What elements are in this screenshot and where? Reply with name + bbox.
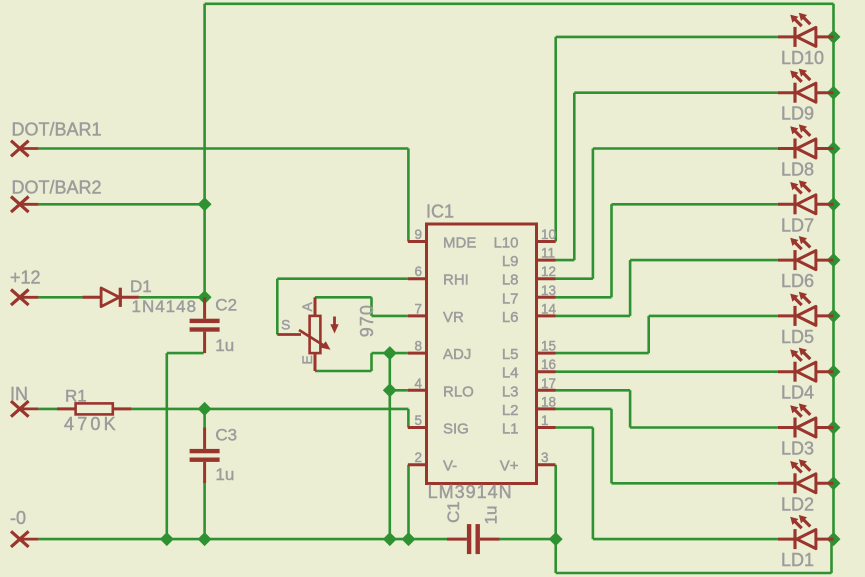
svg-text:V+: V+ xyxy=(500,458,519,475)
svg-text:IN: IN xyxy=(10,384,28,404)
svg-text:LD8: LD8 xyxy=(781,160,814,180)
svg-text:LD9: LD9 xyxy=(781,104,814,124)
svg-text:7: 7 xyxy=(414,301,422,316)
svg-text:LD2: LD2 xyxy=(781,494,814,514)
svg-text:15: 15 xyxy=(541,339,556,354)
svg-text:V-: V- xyxy=(443,458,457,475)
svg-text:C1: C1 xyxy=(444,501,463,523)
svg-text:L5: L5 xyxy=(502,346,519,363)
svg-text:LD3: LD3 xyxy=(781,439,814,459)
svg-text:L2: L2 xyxy=(502,402,519,419)
svg-text:S: S xyxy=(281,317,290,333)
svg-text:L8: L8 xyxy=(502,272,519,289)
svg-text:17: 17 xyxy=(541,376,556,391)
svg-text:D1: D1 xyxy=(130,277,152,296)
svg-text:LD6: LD6 xyxy=(781,271,814,291)
svg-text:6: 6 xyxy=(414,264,422,279)
svg-text:L10: L10 xyxy=(493,235,518,252)
svg-text:1N4148: 1N4148 xyxy=(132,297,198,316)
svg-text:SIG: SIG xyxy=(443,421,469,438)
svg-text:VR: VR xyxy=(443,309,464,326)
svg-text:L6: L6 xyxy=(502,309,519,326)
svg-text:RLO: RLO xyxy=(443,383,474,400)
svg-text:IC1: IC1 xyxy=(426,202,454,222)
svg-text:16: 16 xyxy=(541,357,556,372)
svg-text:DOT/BAR1: DOT/BAR1 xyxy=(12,120,102,140)
svg-text:14: 14 xyxy=(541,301,557,316)
svg-text:R1: R1 xyxy=(65,386,87,405)
svg-text:RHI: RHI xyxy=(443,272,469,289)
svg-text:11: 11 xyxy=(541,246,555,261)
svg-text:12: 12 xyxy=(541,264,556,279)
svg-text:10: 10 xyxy=(541,227,556,242)
svg-text:E: E xyxy=(299,355,315,364)
svg-text:1u: 1u xyxy=(215,465,234,484)
svg-text:1: 1 xyxy=(541,413,549,428)
svg-text:4: 4 xyxy=(414,376,422,391)
svg-text:LD7: LD7 xyxy=(781,215,814,235)
svg-text:-0: -0 xyxy=(10,508,26,528)
svg-text:970: 970 xyxy=(357,304,377,337)
svg-text:LD10: LD10 xyxy=(781,48,824,68)
svg-text:L1: L1 xyxy=(502,421,519,438)
svg-text:L3: L3 xyxy=(502,383,519,400)
svg-text:LD4: LD4 xyxy=(781,383,814,403)
svg-text:8: 8 xyxy=(414,339,422,354)
svg-text:5: 5 xyxy=(414,413,422,428)
svg-text:2: 2 xyxy=(414,450,422,465)
svg-text:A: A xyxy=(299,302,315,312)
svg-text:DOT/BAR2: DOT/BAR2 xyxy=(12,177,102,197)
svg-text:MDE: MDE xyxy=(443,235,476,252)
svg-text:3: 3 xyxy=(541,450,549,465)
svg-text:1u: 1u xyxy=(215,336,234,355)
svg-text:470K: 470K xyxy=(64,414,119,434)
svg-text:13: 13 xyxy=(541,283,556,298)
svg-text:L7: L7 xyxy=(502,290,519,307)
svg-text:C3: C3 xyxy=(215,426,237,445)
svg-text:18: 18 xyxy=(541,394,556,409)
svg-text:LD5: LD5 xyxy=(781,327,814,347)
svg-text:L9: L9 xyxy=(502,253,519,270)
svg-text:LD1: LD1 xyxy=(781,550,814,570)
svg-text:9: 9 xyxy=(414,227,422,242)
svg-text:+12: +12 xyxy=(10,267,41,287)
svg-text:ADJ: ADJ xyxy=(443,346,471,363)
svg-text:LM3914N: LM3914N xyxy=(428,482,513,502)
svg-text:L4: L4 xyxy=(502,365,519,382)
svg-text:C2: C2 xyxy=(215,296,237,315)
svg-text:1u: 1u xyxy=(482,506,501,525)
